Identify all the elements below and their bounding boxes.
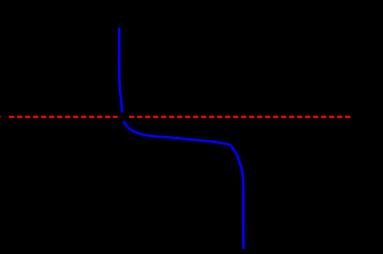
- red dash remnant at left edge: [0, 116, 1, 118]
- black occluding marker at curve/line intersection: [118, 112, 129, 121]
- red dashed horizontal asymptote line: [9, 116, 350, 118]
- blue curve main branch: [123, 121, 243, 249]
- blue curve upper-left branch: [119, 28, 122, 113]
